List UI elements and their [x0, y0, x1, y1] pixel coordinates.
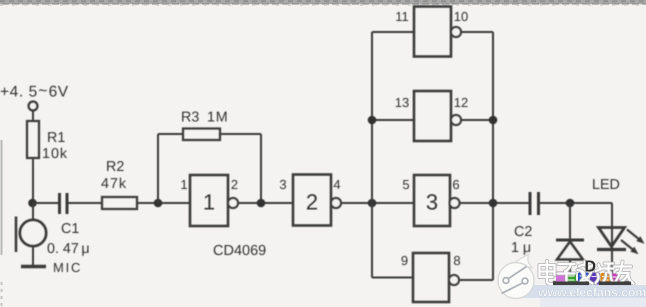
node F junction — [566, 199, 575, 208]
inverter U1B pins 3-4 — [279, 175, 341, 226]
microphone MIC — [16, 217, 82, 276]
svg-text:1 μ: 1 μ — [511, 240, 531, 256]
svg-text:1M: 1M — [207, 110, 228, 126]
capacitor C1 0.47u — [47, 193, 90, 257]
svg-text:LED: LED — [592, 177, 620, 193]
wire R2 to node B — [137, 202, 190, 204]
wire terminal to R1 — [32, 111, 34, 122]
svg-text:9: 9 — [401, 253, 408, 268]
ground (LED) — [599, 281, 631, 285]
watermark big characters — [540, 261, 634, 284]
svg-text:11: 11 — [395, 9, 409, 24]
supply terminal +4.5~6V — [0, 83, 69, 111]
svg-text:R1: R1 — [47, 130, 65, 146]
left bus vertical wire — [371, 32, 373, 278]
svg-text:C1: C1 — [61, 221, 79, 237]
diode VD — [556, 240, 584, 281]
wire node A down to MIC — [32, 203, 34, 221]
svg-text:2: 2 — [231, 177, 238, 192]
inverter U1A pins 1-2 — [180, 175, 238, 226]
inverter U1D pins 9-8 — [372, 253, 493, 302]
wire U1B to node D — [341, 202, 415, 204]
node A junction — [28, 199, 37, 208]
LED — [592, 177, 645, 281]
right bus vertical wire — [492, 32, 494, 280]
feedback resistor R3 1M — [158, 110, 261, 141]
svg-text:3: 3 — [279, 177, 286, 192]
node C junction — [257, 199, 266, 208]
svg-text:10: 10 — [454, 9, 468, 24]
wire node F corner to LED — [611, 203, 613, 227]
svg-text:R3: R3 — [181, 110, 199, 126]
svg-text:5: 5 — [402, 177, 409, 192]
wire node A to C1 — [33, 202, 58, 204]
inverter U1E pins 13-12 — [372, 91, 493, 141]
svg-text:C2: C2 — [514, 224, 532, 240]
wire U1C to node E — [459, 202, 529, 204]
node B junction — [154, 199, 163, 208]
inverter U1C pins 5-6 — [402, 175, 459, 226]
junction left bus pin13 — [368, 116, 377, 125]
svg-text:8: 8 — [453, 253, 460, 268]
svg-text:6: 6 — [452, 177, 459, 192]
resistor R2 47k — [101, 159, 137, 209]
watermark url band — [520, 285, 646, 307]
watermark colored characters — [556, 272, 620, 285]
ground (diode) — [553, 281, 589, 286]
svg-text:12: 12 — [454, 95, 468, 110]
resistor R1 10k — [27, 121, 68, 162]
wire R1 to node A — [32, 158, 34, 203]
capacitor C2 1u — [511, 192, 539, 256]
wire C1 to R2 — [69, 202, 103, 204]
svg-text:MIC: MIC — [53, 260, 82, 275]
ground (diode) redrawn over watermark — [553, 282, 589, 287]
svg-text:13: 13 — [395, 95, 409, 110]
inverter U1F pins 11-10 — [372, 7, 493, 57]
svg-text:3: 3 — [426, 190, 438, 215]
wire node F down to diode — [569, 203, 571, 240]
svg-text:1: 1 — [203, 190, 215, 215]
ground (LED) redrawn over watermark — [599, 282, 631, 286]
svg-text:2: 2 — [306, 190, 318, 215]
node E junction — [489, 199, 498, 208]
wire U1A to node C — [238, 202, 294, 204]
node D junction — [368, 199, 377, 208]
svg-text:CD4069: CD4069 — [213, 243, 266, 259]
watermark logo circle — [498, 255, 534, 299]
wire R3 down to node C — [260, 134, 262, 203]
svg-text:10k: 10k — [42, 146, 68, 162]
svg-text:R2: R2 — [106, 159, 124, 175]
svg-text:47k: 47k — [101, 176, 127, 192]
svg-text:D: D — [585, 259, 597, 276]
svg-text:0. 47μ: 0. 47μ — [47, 241, 90, 257]
svg-text:+4. 5~6V: +4. 5~6V — [0, 83, 69, 101]
svg-text:1: 1 — [180, 177, 187, 192]
wire node B up to R3 — [157, 134, 159, 203]
svg-text:www.elecfans.com: www.elecfans.com — [537, 286, 646, 300]
wire C2 to node F — [540, 202, 612, 204]
ground (MIC) — [21, 265, 46, 269]
svg-text:4: 4 — [333, 177, 340, 192]
junction right bus pin12 — [489, 116, 498, 125]
